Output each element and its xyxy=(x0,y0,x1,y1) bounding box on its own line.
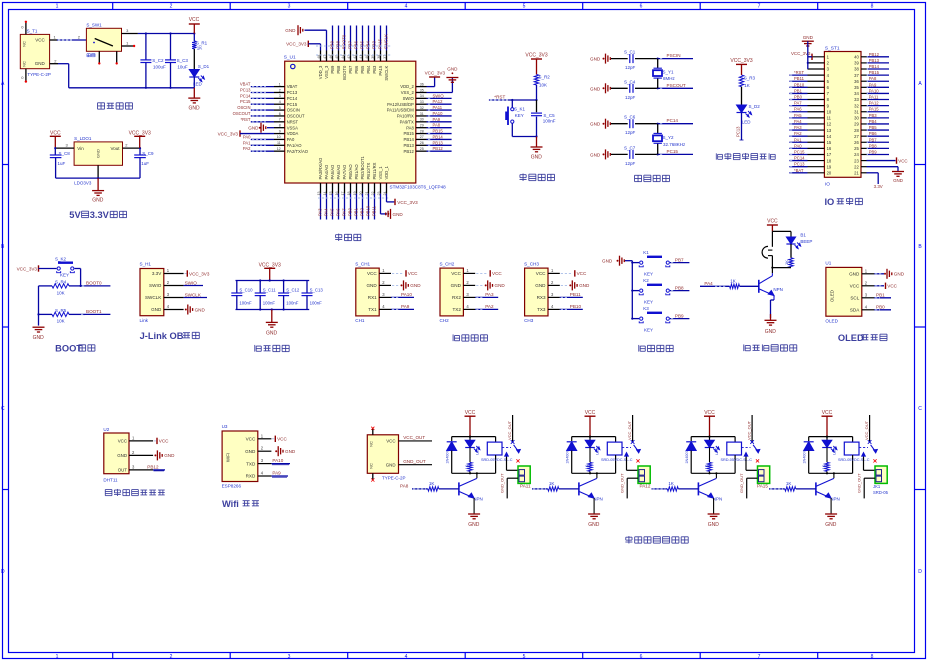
svg-text:S_C13: S_C13 xyxy=(310,287,324,292)
svg-text:PA7: PA7 xyxy=(342,208,347,216)
resistor alarm base 1K xyxy=(700,278,759,288)
ground ST1 pin22 xyxy=(867,167,905,183)
svg-text:PB1/AO: PB1/AO xyxy=(354,164,359,180)
svg-text:PC14: PC14 xyxy=(794,156,805,161)
resistor S_R2 xyxy=(534,75,550,101)
svg-text:GND: GND xyxy=(35,61,46,66)
svg-text:PA12: PA12 xyxy=(640,483,651,488)
svg-text:VBAT: VBAT xyxy=(287,84,298,89)
wire relay2 bottom rail xyxy=(572,472,616,474)
svg-text:37: 37 xyxy=(854,73,859,78)
ground U3 GND xyxy=(275,446,296,456)
svg-text:PB3: PB3 xyxy=(372,65,377,74)
power U1 VDD_2 xyxy=(425,70,446,86)
svg-text:2: 2 xyxy=(170,4,173,10)
svg-text:WIFI: WIFI xyxy=(226,453,231,462)
svg-text:30: 30 xyxy=(420,118,424,122)
svg-text:U2: U2 xyxy=(103,427,109,432)
crystal S_Y1 xyxy=(653,59,676,89)
wires U1 bottom nets xyxy=(318,194,390,220)
svg-text:5: 5 xyxy=(523,654,526,660)
net U3 TXD xyxy=(271,458,290,465)
svg-text:SCL: SCL xyxy=(850,296,859,301)
svg-text:25: 25 xyxy=(420,147,424,151)
title IO拓展口 xyxy=(824,197,862,207)
svg-text:NC: NC xyxy=(22,41,27,47)
svg-text:PA8: PA8 xyxy=(406,125,414,130)
svg-text:VSS_1: VSS_1 xyxy=(378,166,383,180)
svg-text:PA5: PA5 xyxy=(330,208,335,216)
svg-text:PA15: PA15 xyxy=(869,107,880,112)
ground U1 VSS_2 xyxy=(427,67,459,93)
svg-text:3.3V: 3.3V xyxy=(90,210,110,220)
pin LDO-3 xyxy=(54,143,74,150)
svg-text:1uF: 1uF xyxy=(141,161,149,166)
svg-text:PB12: PB12 xyxy=(433,146,444,151)
svg-text:PB1: PB1 xyxy=(876,293,885,298)
wire boot rail xyxy=(37,286,39,326)
svg-text:NPN: NPN xyxy=(473,497,483,502)
svg-text:D: D xyxy=(918,569,922,575)
svg-text:PA6/AO: PA6/AO xyxy=(336,164,341,180)
svg-text:10uF: 10uF xyxy=(177,65,188,70)
wire relay4 bottom rail xyxy=(809,472,853,474)
svg-text:RX2: RX2 xyxy=(452,295,461,300)
title 复位电路 xyxy=(520,174,555,181)
power CH3 VCC xyxy=(561,270,587,276)
capacitor S_C11 xyxy=(255,281,277,310)
svg-text:GND: GND xyxy=(92,198,104,204)
svg-text:VCC_OUT: VCC_OUT xyxy=(746,420,751,440)
svg-text:VCC_3V3: VCC_3V3 xyxy=(218,131,239,136)
svg-text:OSCIN: OSCIN xyxy=(287,108,300,113)
svg-text:S_Y1: S_Y1 xyxy=(663,70,675,75)
svg-text:8: 8 xyxy=(871,4,874,10)
LED B1 BEEP xyxy=(786,232,812,248)
pin SW1-b2 xyxy=(116,51,118,64)
svg-text:VSSA: VSSA xyxy=(287,125,298,130)
ground U1 VSSA xyxy=(248,123,274,133)
svg-text:S_K2: S_K2 xyxy=(55,257,67,262)
module U3 ESP8266 xyxy=(222,424,272,489)
svg-text:J-Link OB: J-Link OB xyxy=(140,331,184,341)
power CH1 VCC xyxy=(392,270,418,276)
capacitor S_C13 xyxy=(302,281,324,310)
svg-text:10: 10 xyxy=(277,135,281,139)
svg-text:PA3: PA3 xyxy=(794,125,802,130)
svg-text:SWIO: SWIO xyxy=(185,280,198,285)
power OLED VCC xyxy=(874,283,897,289)
svg-text:VCC_3V3: VCC_3V3 xyxy=(525,53,547,59)
svg-text:PA2: PA2 xyxy=(794,131,802,136)
net CH3 TX xyxy=(560,304,583,309)
svg-text:Vin: Vin xyxy=(77,146,84,151)
transistor Q4 NPN xyxy=(816,473,840,501)
svg-text:PA10: PA10 xyxy=(869,88,880,93)
svg-text:VCC: VCC xyxy=(118,439,127,444)
svg-text:PB7: PB7 xyxy=(869,137,878,142)
resistor S_R3 xyxy=(739,75,755,105)
svg-text:PB13: PB13 xyxy=(404,143,415,148)
svg-text:12pF: 12pF xyxy=(625,65,636,70)
svg-text:31: 31 xyxy=(420,112,424,116)
svg-text:PA1: PA1 xyxy=(794,137,802,142)
svg-text:SRD-05VDC-SL-C: SRD-05VDC-SL-C xyxy=(838,458,870,462)
svg-text:VCC_OUT: VCC_OUT xyxy=(864,420,869,440)
capacitor S_C4 row PSCOUT xyxy=(590,79,693,100)
svg-text:GND: GND xyxy=(366,283,377,288)
svg-text:VCC: VCC xyxy=(465,410,476,416)
svg-text:PA3: PA3 xyxy=(318,208,323,216)
svg-text:10K: 10K xyxy=(539,83,547,88)
svg-text:PA6: PA6 xyxy=(794,107,802,112)
svg-text:S_C8: S_C8 xyxy=(59,151,71,156)
resistor relay2 base 1K xyxy=(520,481,579,491)
svg-text:LED: LED xyxy=(596,447,600,455)
svg-text:GND: GND xyxy=(765,329,777,335)
svg-text:1K: 1K xyxy=(585,464,589,469)
svg-text:9: 9 xyxy=(279,129,281,133)
ground power GND xyxy=(188,88,200,112)
svg-text:4: 4 xyxy=(405,654,408,660)
IC U1 body xyxy=(284,55,446,190)
net CH1 TX xyxy=(391,304,414,309)
svg-text:S_C3: S_C3 xyxy=(177,58,189,63)
terminal relay3 xyxy=(739,466,770,498)
svg-text:OSCOUT: OSCOUT xyxy=(233,111,251,116)
net ST1 pin21 3.3V xyxy=(867,173,883,189)
svg-text:PB6: PB6 xyxy=(354,65,359,74)
svg-text:BOOT0: BOOT0 xyxy=(342,65,347,80)
svg-text:13: 13 xyxy=(827,128,832,133)
svg-text:PA5/AO: PA5/AO xyxy=(330,164,335,180)
svg-text:GND: GND xyxy=(451,283,462,288)
svg-text:19: 19 xyxy=(827,164,832,169)
svg-text:12pF: 12pF xyxy=(625,130,636,135)
wire power bottom rail xyxy=(58,64,194,89)
svg-text:K2: K2 xyxy=(643,278,649,283)
svg-text:VCC_OUT: VCC_OUT xyxy=(627,420,632,440)
svg-text:2: 2 xyxy=(170,654,173,660)
svg-text:S_R5: S_R5 xyxy=(55,308,67,313)
title 声光报警电路 xyxy=(744,344,797,351)
svg-text:VCC: VCC xyxy=(577,271,587,276)
svg-text:Link: Link xyxy=(140,318,149,323)
svg-text:VCC_3V3: VCC_3V3 xyxy=(425,70,446,75)
svg-text:PB2/BOOT1: PB2/BOOT1 xyxy=(360,156,365,180)
svg-text:VCC_3V3: VCC_3V3 xyxy=(397,200,418,205)
svg-text:S_C4: S_C4 xyxy=(624,79,636,84)
IC U1 top pins xyxy=(317,51,389,81)
transistor Q3 NPN xyxy=(698,473,722,501)
svg-text:PB11: PB11 xyxy=(794,76,805,81)
ground CH1 GND xyxy=(392,280,421,290)
svg-text:CH2: CH2 xyxy=(440,318,450,323)
svg-text:PB14: PB14 xyxy=(433,134,444,139)
svg-text:GND: GND xyxy=(393,212,404,217)
connector ST1 right pins xyxy=(854,55,866,176)
svg-text:35: 35 xyxy=(854,85,859,90)
svg-text:PC15: PC15 xyxy=(794,149,805,154)
capacitor S_C12 xyxy=(278,281,300,310)
svg-text:PA8: PA8 xyxy=(433,123,441,128)
relay coil JK3 xyxy=(721,442,753,473)
ground H1 GND xyxy=(185,305,206,315)
button K3 xyxy=(631,306,670,333)
svg-text:GND: GND xyxy=(849,272,860,277)
svg-text:PB13: PB13 xyxy=(433,140,444,145)
svg-text:S_C6: S_C6 xyxy=(624,115,636,120)
svg-text:26: 26 xyxy=(854,140,859,145)
svg-text:PA10/RX: PA10/RX xyxy=(397,114,414,119)
svg-text:32: 32 xyxy=(854,103,859,108)
terminal relay4 xyxy=(856,466,887,498)
svg-text:PB9: PB9 xyxy=(675,313,684,318)
svg-text:S_C10: S_C10 xyxy=(239,287,253,292)
svg-text:PB11: PB11 xyxy=(570,292,581,297)
relay coil JK4 xyxy=(838,442,870,473)
terminal relay1 xyxy=(499,466,530,498)
crystal S_Y2 xyxy=(653,124,686,155)
svg-text:VCC: VCC xyxy=(451,271,461,276)
svg-text:S_T1: S_T1 xyxy=(27,29,38,34)
svg-text:GND: GND xyxy=(266,330,278,336)
ground ST1 top GND xyxy=(802,35,814,69)
svg-text:30: 30 xyxy=(854,116,859,121)
title 程序运行指示灯 xyxy=(716,153,775,160)
svg-text:S_C11: S_C11 xyxy=(263,287,276,292)
power VCC_3V3 runled xyxy=(730,58,752,75)
module U2 DHT11 xyxy=(103,427,153,483)
svg-text:PB1: PB1 xyxy=(354,207,359,216)
svg-text:PA11: PA11 xyxy=(520,483,531,488)
terminal relay2 xyxy=(619,466,650,498)
svg-text:5: 5 xyxy=(279,106,281,110)
svg-text:3: 3 xyxy=(288,654,291,660)
svg-text:GND: GND xyxy=(495,283,506,288)
svg-text:15: 15 xyxy=(827,140,832,145)
svg-text:2: 2 xyxy=(279,88,281,92)
wire T1 VCC to SW1 xyxy=(57,39,86,41)
svg-text:4: 4 xyxy=(405,4,408,10)
svg-text:SWCLK: SWCLK xyxy=(185,292,202,297)
svg-text:32: 32 xyxy=(420,106,424,110)
svg-text:VCC_3V3: VCC_3V3 xyxy=(17,266,38,271)
svg-text:GND: GND xyxy=(164,453,175,458)
svg-text:10K: 10K xyxy=(57,290,65,295)
svg-text:VCC_OUT: VCC_OUT xyxy=(507,420,512,440)
svg-text:VCC: VCC xyxy=(492,271,502,276)
svg-text:SWIO: SWIO xyxy=(403,96,415,101)
button S_K1 xyxy=(505,100,525,137)
svg-text:NC: NC xyxy=(369,441,374,447)
title J-Link OB接口 xyxy=(140,331,200,341)
relay coil JK1 xyxy=(481,442,513,473)
svg-text:PC13: PC13 xyxy=(287,90,298,95)
svg-text:PB9: PB9 xyxy=(330,65,335,74)
resistor relay2 1K xyxy=(585,448,592,474)
relay3 switch xyxy=(742,415,760,470)
svg-text:26: 26 xyxy=(420,141,424,145)
svg-text:KEY: KEY xyxy=(515,113,524,118)
svg-text:8MHz: 8MHz xyxy=(663,76,676,81)
connector S_H1 xyxy=(140,262,184,323)
power VCC_3V3 ldo xyxy=(129,131,151,149)
wire ldo bottom xyxy=(56,177,140,179)
svg-text:GND: GND xyxy=(825,522,837,528)
svg-text:GND: GND xyxy=(248,125,259,130)
svg-text:GND: GND xyxy=(803,35,814,40)
svg-text:PB5: PB5 xyxy=(360,65,365,74)
svg-text:34: 34 xyxy=(420,94,424,98)
svg-text:S_LDO1: S_LDO1 xyxy=(74,136,92,141)
svg-text:GND: GND xyxy=(708,522,720,528)
svg-text:PB3: PB3 xyxy=(869,113,878,118)
svg-text:LED: LED xyxy=(742,120,752,125)
wire alarm emitter xyxy=(771,296,775,319)
wires ST1 left nets xyxy=(789,70,807,173)
svg-text:PB0: PB0 xyxy=(348,207,353,216)
net H1 SWIO xyxy=(184,280,203,285)
ground ldo GND xyxy=(92,178,104,203)
svg-text:U1: U1 xyxy=(825,261,831,266)
svg-text:27: 27 xyxy=(854,134,859,139)
svg-text:S_R3: S_R3 xyxy=(744,76,756,81)
capacitor S_C3 xyxy=(165,34,188,88)
svg-text:TX1: TX1 xyxy=(368,307,377,312)
svg-text:GND: GND xyxy=(117,453,127,458)
svg-text:GND: GND xyxy=(195,307,206,312)
button S_K2 xyxy=(55,257,81,286)
svg-text:1N4007: 1N4007 xyxy=(446,450,450,463)
svg-text:PSCIN: PSCIN xyxy=(667,53,681,58)
net BOOT0 xyxy=(80,280,111,287)
svg-text:25: 25 xyxy=(854,146,859,151)
wire relay1 bottom rail xyxy=(452,472,496,474)
svg-text:VDD_1: VDD_1 xyxy=(384,165,389,179)
svg-text:39: 39 xyxy=(854,61,859,66)
power VCC relay4 xyxy=(822,410,833,437)
svg-text:LED: LED xyxy=(715,447,719,455)
svg-text:6: 6 xyxy=(640,654,643,660)
svg-text:22: 22 xyxy=(854,164,859,169)
ground U1 VSS_3 xyxy=(285,25,326,50)
power ST1 VCC_3V3 xyxy=(791,51,812,60)
pin T1-1 VCC xyxy=(50,35,57,40)
svg-text:PB0/AO: PB0/AO xyxy=(348,164,353,180)
power U3 VCC xyxy=(272,436,287,442)
svg-text:PSCOUT: PSCOUT xyxy=(667,83,686,88)
resistor S_R5 xyxy=(39,308,86,323)
svg-text:1K: 1K xyxy=(744,83,750,88)
pin SW1-3 xyxy=(122,28,138,34)
svg-text:16: 16 xyxy=(827,146,832,151)
svg-text:PB9: PB9 xyxy=(869,149,878,154)
svg-text:TYPE-C-2P: TYPE-C-2P xyxy=(27,72,51,77)
svg-text:1K: 1K xyxy=(197,46,203,51)
svg-text:PA3/RX/AO: PA3/RX/AO xyxy=(318,157,323,180)
svg-text:PB13: PB13 xyxy=(869,58,880,63)
svg-text:NPN: NPN xyxy=(830,497,840,502)
svg-text:PB5: PB5 xyxy=(360,40,365,49)
svg-text:12pF: 12pF xyxy=(625,95,636,100)
svg-text:GND: GND xyxy=(33,335,45,341)
svg-text:12: 12 xyxy=(277,147,281,151)
svg-text:PA15: PA15 xyxy=(378,65,383,76)
svg-text:DHT11: DHT11 xyxy=(103,478,118,483)
pin SW1-2 xyxy=(78,35,81,40)
svg-text:1: 1 xyxy=(56,4,59,10)
switch S_SW1 xyxy=(86,23,121,57)
svg-text:1K: 1K xyxy=(465,464,469,469)
svg-text:NC: NC xyxy=(369,463,374,469)
power ST1 VCC pin23 xyxy=(867,157,908,163)
wire runled net PC13 xyxy=(736,113,744,141)
connector ST1 left pins xyxy=(808,55,832,176)
relay coil JK2 xyxy=(601,442,633,473)
svg-text:PA9: PA9 xyxy=(869,82,877,87)
svg-text:BOOT0: BOOT0 xyxy=(86,280,102,285)
svg-text:VCC_3V3: VCC_3V3 xyxy=(286,41,307,46)
svg-text:VCC: VCC xyxy=(850,284,860,289)
svg-text:GND: GND xyxy=(531,155,543,161)
svg-text:1N4007: 1N4007 xyxy=(566,450,570,463)
ground relay1 GND xyxy=(468,498,480,528)
pin T2 top xyxy=(371,427,374,435)
resistor relay3 base 1K xyxy=(640,481,699,491)
svg-text:23: 23 xyxy=(854,158,859,163)
capacitor S_C7 row PC15 xyxy=(590,145,693,166)
net CH3 RX xyxy=(560,292,583,297)
svg-text:SRD-05VDC-SL-C: SRD-05VDC-SL-C xyxy=(601,458,633,462)
svg-text:3: 3 xyxy=(288,4,291,10)
pin T1-bottom xyxy=(21,69,27,83)
svg-text:PB0: PB0 xyxy=(876,305,885,310)
svg-text:PB5: PB5 xyxy=(869,125,878,130)
svg-text:S_C12: S_C12 xyxy=(286,287,300,292)
capacitor S_C1 row PSCIN xyxy=(590,50,693,71)
IC U1 bottom pins xyxy=(317,156,389,196)
wire relay3 top rail xyxy=(691,436,735,443)
svg-text:PA11: PA11 xyxy=(433,105,443,110)
power U2 VCC xyxy=(154,438,169,444)
LED relay2 xyxy=(585,437,600,455)
svg-text:Wifi: Wifi xyxy=(222,499,239,509)
svg-text:PB12: PB12 xyxy=(147,464,159,469)
svg-text:D: D xyxy=(1,569,5,575)
svg-text:S_ST1: S_ST1 xyxy=(825,45,840,51)
svg-text:VCC_3V3: VCC_3V3 xyxy=(189,271,210,276)
svg-text:OLED: OLED xyxy=(825,318,838,323)
svg-text:VBAT: VBAT xyxy=(240,82,251,87)
IC U1 right pins xyxy=(387,82,427,153)
connector S_ST1 xyxy=(824,45,861,187)
svg-text:S_CH2: S_CH2 xyxy=(440,261,455,266)
svg-text:PA9: PA9 xyxy=(272,471,281,476)
svg-text:BOOT1: BOOT1 xyxy=(86,309,102,314)
pin T1-top xyxy=(21,21,27,35)
svg-text:S_H1: S_H1 xyxy=(140,262,152,267)
svg-text:PB7: PB7 xyxy=(348,40,353,49)
svg-text:36: 36 xyxy=(420,82,424,86)
svg-text:SWCLK: SWCLK xyxy=(384,34,389,49)
svg-text:PB8: PB8 xyxy=(336,65,341,74)
title 5V转3.3V电路 xyxy=(69,210,126,220)
svg-text:PC13: PC13 xyxy=(240,87,251,92)
svg-text:36: 36 xyxy=(854,79,859,84)
ground CH3 GND xyxy=(561,280,590,290)
diode D1 1N4007 xyxy=(446,442,457,474)
